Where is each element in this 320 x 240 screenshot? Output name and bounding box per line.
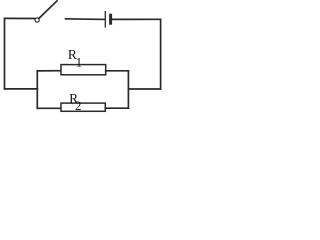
label R2 value <box>69 91 81 113</box>
svg-text:2: 2 <box>75 99 81 113</box>
switch S pivot circle <box>35 18 39 22</box>
resistor R2 body <box>61 103 105 111</box>
wire top branch right lead <box>106 70 129 72</box>
switch S lever (open) <box>39 1 57 19</box>
resistor R1 body <box>61 65 106 75</box>
label R1 value <box>68 47 82 69</box>
wire top branch left lead <box>37 70 61 72</box>
wire top-left horizontal to switch <box>5 17 35 19</box>
wire inner-left vertical joining branches <box>36 71 38 108</box>
wire left connector to parallel block <box>5 88 38 90</box>
wire right vertical side <box>160 19 162 89</box>
svg-text:1: 1 <box>76 56 82 70</box>
wire inner-right vertical joining branches <box>127 71 129 108</box>
wire left vertical side <box>4 18 6 89</box>
battery positive plate (long thin) <box>104 11 106 28</box>
wire switch to battery <box>66 18 105 21</box>
wire bottom branch left lead <box>37 107 61 109</box>
wire right connector to parallel block <box>128 88 160 90</box>
wire bottom branch right lead <box>105 107 128 109</box>
wire battery to top-right corner <box>112 18 161 20</box>
battery negative plate (short thick) <box>109 14 112 25</box>
